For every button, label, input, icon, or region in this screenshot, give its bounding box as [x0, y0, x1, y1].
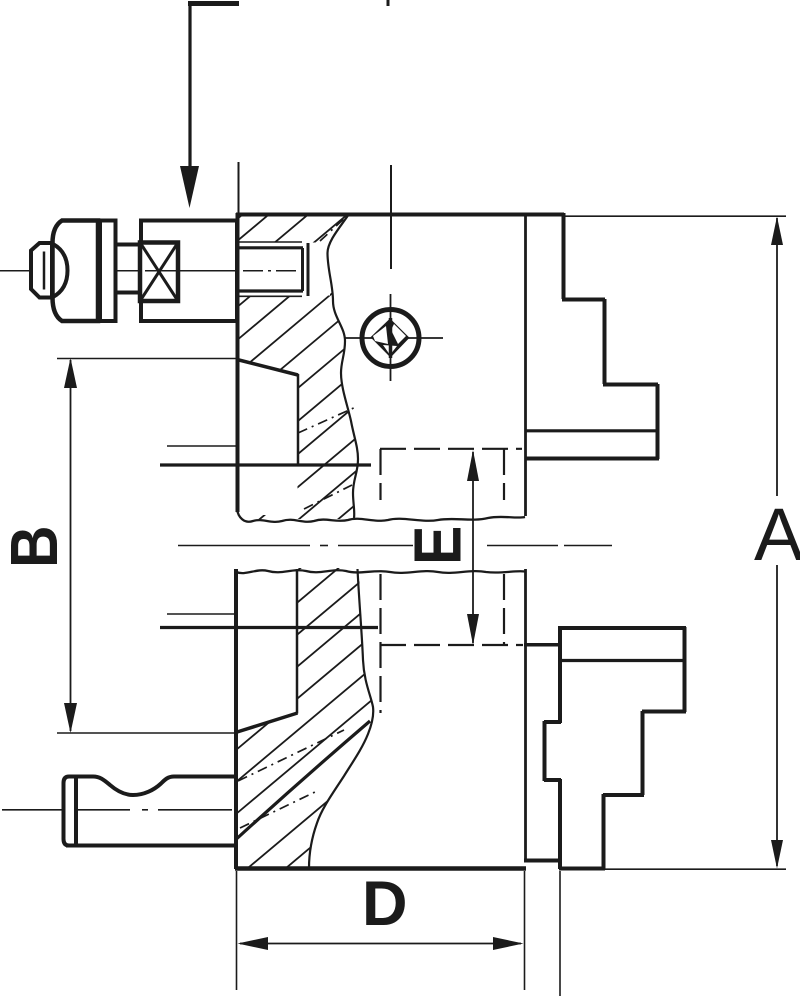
threaded hole thread crest top — [238, 241, 302, 243]
bore chamfer slant lower — [236, 713, 298, 733]
upper jaw base line — [526, 429, 657, 432]
extension line far right bottom — [559, 871, 561, 996]
threaded hole end outer — [307, 243, 310, 296]
broken-out section wavy boundary lower — [309, 569, 373, 868]
hatching upper body section — [226, 109, 368, 613]
socket crosshair vertical — [390, 294, 392, 381]
bore step edge upper thick — [160, 463, 371, 466]
hidden square hole dashed lines — [380, 449, 523, 713]
dimension D line — [240, 943, 521, 945]
white cutout bore land strip — [238, 466, 298, 515]
lower jaw outline — [544, 627, 686, 869]
bore step extension thin upper — [167, 445, 236, 447]
chuck key direction arrow line — [188, 2, 191, 172]
dimension A extension line bottom — [605, 868, 786, 870]
dimension E arrowhead up — [467, 450, 479, 481]
dimension D extension line left — [236, 871, 238, 990]
dimension B extension line top — [57, 358, 237, 360]
svg-text:B: B — [0, 525, 72, 568]
chuck key direction arrow bar — [188, 1, 239, 6]
square thrust piece with cross — [140, 243, 178, 302]
scroll thread hidden lines lower (dash-dot diagonals) — [238, 730, 344, 828]
threaded hole wall top — [237, 246, 303, 249]
dimension D extension line right — [524, 871, 526, 990]
body bottom edge — [235, 866, 526, 871]
hook stud left cap — [64, 777, 77, 846]
tick mark top image edge — [387, 0, 390, 6]
bolt thread tip — [31, 243, 52, 298]
bolt tip facet line — [43, 252, 46, 290]
dimension B line — [70, 360, 72, 731]
scroll thread hidden lines upper (dash-dot diagonals) — [298, 215, 358, 509]
break wavy line upper gap top — [237, 509, 525, 522]
body top edge — [236, 213, 564, 217]
dimension D arrowhead right — [493, 937, 524, 950]
body right face upper — [524, 214, 527, 517]
dimension E line — [472, 452, 474, 643]
hex nut facet arc — [53, 244, 68, 297]
svg-text:A: A — [754, 493, 800, 576]
socket diamond — [371, 319, 410, 358]
body right face lower — [524, 569, 527, 861]
bore step edge lower thick — [160, 626, 378, 629]
svg-text:D: D — [362, 869, 408, 939]
hook stud centerline — [2, 809, 232, 811]
hook stud cap face line — [75, 775, 78, 847]
bolt shank top — [116, 243, 142, 247]
hex nut — [53, 221, 99, 322]
bolt centerline — [0, 270, 237, 272]
washer — [100, 221, 116, 322]
white cutout threaded hole — [237, 243, 330, 296]
lower jaw slot ledge — [524, 643, 561, 647]
slide block centerline inside — [145, 270, 236, 272]
bolt shank bottom — [116, 291, 142, 295]
chuck key direction arrowhead — [180, 166, 199, 208]
broken-out section wavy boundary upper — [328, 214, 359, 518]
hook stud bottom edge — [66, 844, 236, 848]
dimension D arrowhead left — [238, 937, 269, 950]
socket crosshair horizontal — [344, 337, 443, 339]
square socket symbol circle — [362, 310, 419, 367]
dimension A extension line top — [565, 215, 786, 217]
dimension E arrowhead down — [467, 614, 479, 645]
short vertical mark above body left corner — [238, 162, 240, 213]
threaded hole end inner — [301, 248, 304, 291]
dimension B arrowhead down — [64, 703, 77, 733]
dimension B extension line bottom — [57, 732, 237, 734]
main horizontal centerline — [178, 545, 612, 547]
upper jaw outline — [525, 213, 659, 459]
break wavy line lower gap bottom — [236, 570, 525, 573]
body bottom right step edge — [524, 859, 561, 863]
bore wall vertical upper — [297, 374, 300, 465]
bore chamfer slant upper — [237, 360, 298, 376]
slide block — [141, 221, 237, 322]
dimension A arrowhead down — [771, 840, 783, 869]
white cutout bore recess upper — [237, 361, 298, 464]
threaded hole thread crest bottom — [238, 295, 302, 297]
hook stud top edge with groove — [76, 777, 236, 796]
dimension A line lower — [776, 565, 778, 866]
bore step extension thin lower — [167, 613, 236, 615]
body left edge lower — [234, 569, 238, 869]
threaded hole wall bottom — [237, 289, 303, 292]
dimension A line upper — [776, 218, 778, 496]
body left edge upper — [236, 213, 240, 512]
lower jaw base line — [560, 659, 684, 662]
hatching lower body section — [226, 486, 398, 918]
dimension A arrowhead up — [771, 217, 783, 246]
svg-text:E: E — [401, 526, 475, 565]
bore wall vertical lower — [296, 569, 299, 714]
vertical center mark above socket — [390, 165, 392, 269]
dimension B arrowhead up — [64, 358, 77, 388]
